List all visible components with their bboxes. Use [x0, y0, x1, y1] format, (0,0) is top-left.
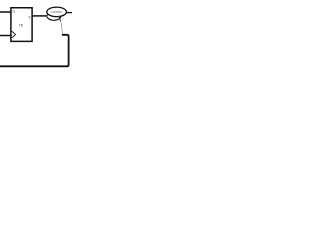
flip-flop U1 box [11, 8, 32, 42]
clock wedge [12, 31, 16, 38]
svg-text:combo: combo [51, 10, 62, 14]
curve dark upper part [59, 16, 61, 21]
svg-text:D: D [12, 9, 15, 14]
wire ellipse output right [66, 12, 72, 14]
wire D input [0, 11, 11, 13]
wire right loop to bottom [0, 35, 69, 67]
svg-text:q: q [28, 14, 30, 19]
wire descending from ellipse [59, 16, 63, 35]
wire CLK input [0, 35, 11, 37]
svg-text:m: m [19, 24, 23, 29]
wire into ellipse left [46, 14, 48, 16]
wire Q output [32, 15, 46, 17]
ellipse Combo [47, 7, 67, 17]
wire U-arc under ellipse [46, 16, 61, 20]
